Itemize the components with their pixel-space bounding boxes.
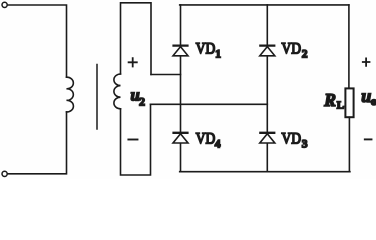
svg-text:VD: VD (282, 41, 302, 58)
svg-text:3: 3 (302, 138, 308, 150)
secondary winding L2 (3 loops, bulge left) (114, 74, 121, 109)
wire: jog from secondary upper terminal to node A on rail 1 (151, 74, 181, 76)
wire: secondary top terminal (up, over, down to node A) (121, 3, 152, 75)
svg-text:1: 1 (215, 49, 221, 61)
transformer core (96, 65, 98, 130)
svg-text:L: L (337, 100, 344, 112)
svg-text:2: 2 (302, 49, 308, 61)
svg-text:VD: VD (196, 130, 216, 147)
wire: rail 2 middle segment (VD2 anode through node B to VD3 cathode) (266, 56, 268, 132)
wire: bridge top rail (+) (180, 4, 349, 6)
label + (u2 polarity top) (129, 58, 137, 66)
primary winding L1 (3 loops, bulge right) (67, 77, 74, 112)
wire: secondary coil bottom, down, right, up to lower AC corner (121, 104, 151, 175)
svg-text:2: 2 (139, 94, 145, 108)
wire: top-left terminal to primary top corner, down to coil (7, 5, 66, 77)
resistor RL (load box) (345, 88, 353, 117)
wire: lower AC wire from secondary to node B on rail 2 (crosses rail 1) (151, 103, 268, 105)
wire: rail 2 top segment (top rail to VD2 cathode) (266, 5, 268, 45)
label + (uo polarity top) (363, 58, 370, 66)
wire: rail 2 bottom segment (VD3 anode to bottom rail) (266, 143, 268, 172)
diode VD4 (172, 133, 188, 143)
svg-text:4: 4 (215, 138, 221, 150)
svg-text:u: u (361, 86, 371, 106)
terminal a (top-left input) (2, 2, 7, 7)
diode VD1 (172, 46, 188, 56)
wire: bridge bottom rail (-) (180, 171, 350, 173)
svg-text:VD: VD (282, 130, 302, 147)
wire: output right wire top (top rail to RL) (348, 5, 350, 88)
svg-text:o: o (371, 94, 376, 108)
diode VD2 (259, 46, 275, 56)
label - (u2 polarity bottom) (128, 139, 137, 141)
wire: output right wire bottom (RL to bottom rail) (348, 117, 350, 172)
wire: rail 1 middle segment (VD1 anode through node A to VD4 cathode) (180, 56, 182, 132)
terminal b (bottom-left input) (2, 171, 7, 176)
diode VD3 (259, 133, 275, 143)
svg-text:VD: VD (196, 41, 216, 58)
wire: rail 1 top segment (top rail to VD1 cathode) (180, 5, 182, 45)
label - (uo polarity bottom) (365, 138, 372, 140)
wire: rail 1 bottom segment (VD4 anode to bottom rail) (180, 143, 182, 172)
svg-text:R: R (323, 90, 336, 110)
wire: primary coil bottom to bottom-left terminal (7, 112, 66, 174)
